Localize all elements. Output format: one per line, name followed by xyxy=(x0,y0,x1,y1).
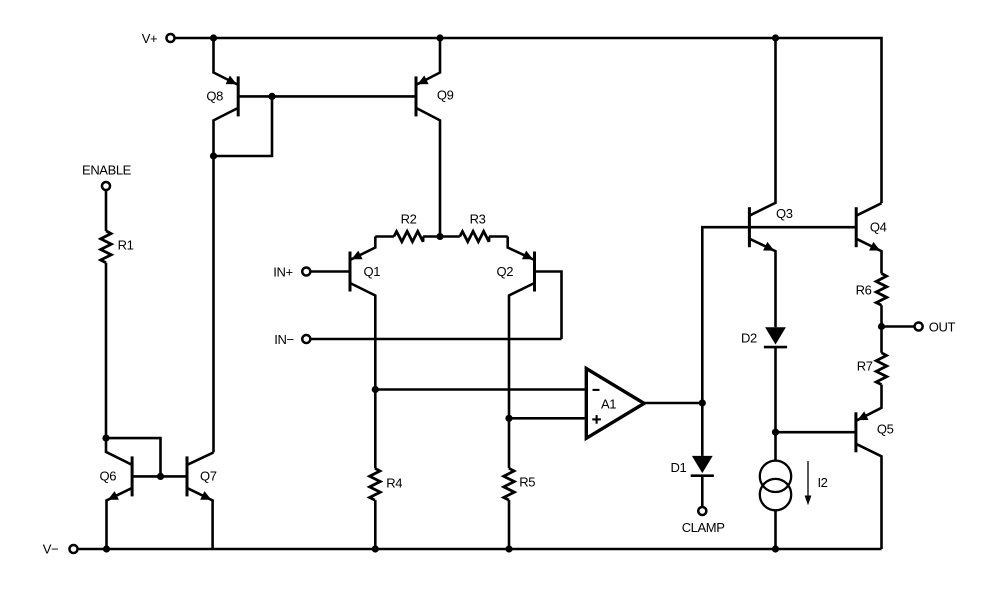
svg-text:D2: D2 xyxy=(741,330,757,345)
svg-text:Q5: Q5 xyxy=(877,421,894,436)
svg-text:Q8: Q8 xyxy=(206,88,223,103)
svg-text:R4: R4 xyxy=(386,475,402,490)
svg-text:Q4: Q4 xyxy=(870,219,887,234)
svg-text:ENABLE: ENABLE xyxy=(82,163,132,178)
svg-text:OUT: OUT xyxy=(929,319,956,334)
svg-text:V+: V+ xyxy=(142,31,157,46)
svg-text:A1: A1 xyxy=(601,396,616,411)
svg-text:R6: R6 xyxy=(856,283,872,298)
svg-text:R1: R1 xyxy=(118,238,134,253)
svg-text:R7: R7 xyxy=(857,358,873,373)
svg-text:IN+: IN+ xyxy=(273,264,292,279)
svg-text:IN−: IN− xyxy=(274,332,293,347)
svg-text:Q2: Q2 xyxy=(497,264,514,279)
svg-text:Q7: Q7 xyxy=(200,468,217,483)
svg-text:D1: D1 xyxy=(670,460,686,475)
svg-text:Q6: Q6 xyxy=(100,468,117,483)
svg-text:Q1: Q1 xyxy=(364,264,381,279)
svg-text:Q9: Q9 xyxy=(437,88,454,103)
svg-text:I2: I2 xyxy=(817,475,827,490)
svg-text:Q3: Q3 xyxy=(776,206,793,221)
svg-text:CLAMP: CLAMP xyxy=(682,520,725,535)
svg-text:V−: V− xyxy=(43,542,58,557)
svg-text:R3: R3 xyxy=(470,212,486,227)
svg-text:R2: R2 xyxy=(401,212,417,227)
svg-text:R5: R5 xyxy=(519,475,535,490)
